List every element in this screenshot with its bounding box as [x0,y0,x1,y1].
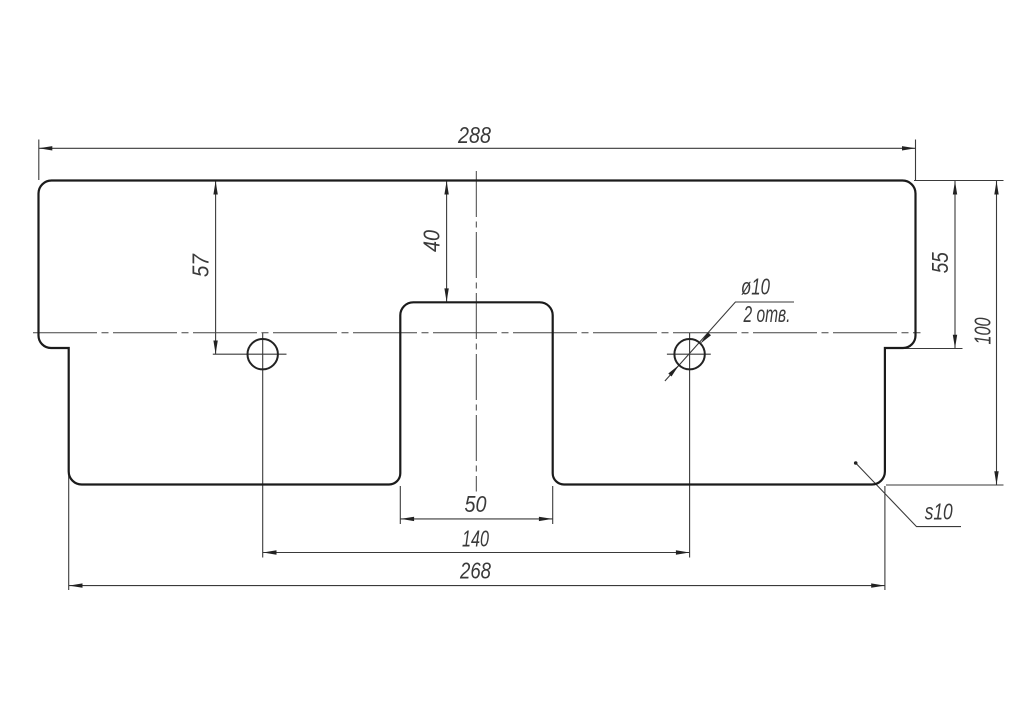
svg-text:288: 288 [457,122,491,148]
svg-text:s10: s10 [925,499,953,525]
svg-text:50: 50 [465,491,487,517]
svg-text:57: 57 [187,253,213,277]
svg-text:55: 55 [927,251,953,273]
svg-text:100: 100 [969,318,995,345]
svg-text:ø10: ø10 [741,274,770,300]
svg-text:268: 268 [459,558,491,584]
svg-text:40: 40 [419,230,445,252]
svg-text:140: 140 [462,526,489,552]
svg-text:2 отв.: 2 отв. [743,301,791,327]
